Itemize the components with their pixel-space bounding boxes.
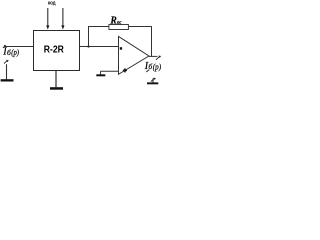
wire left input — [5, 46, 34, 48]
ground (below R-2R block) — [50, 87, 63, 90]
wire output — [149, 55, 158, 57]
ground (left) — [1, 79, 14, 81]
wire feedback top right segment — [128, 26, 152, 28]
op-amp U1 — [119, 36, 149, 74]
ground (op-amp + input) — [96, 74, 105, 76]
svg-text:Iб(р): Iб(р) — [2, 47, 19, 58]
R-2R ladder network block — [34, 31, 80, 71]
svg-text:Iб(р): Iб(р) — [144, 61, 162, 72]
wire feedback riser right — [151, 27, 153, 57]
ground (output) — [147, 82, 158, 84]
current arrow at output — [156, 56, 161, 60]
current arrow on output ground stub — [151, 78, 156, 82]
minus sign (inverting input) — [120, 47, 122, 50]
wire block bottom to ground — [55, 71, 57, 88]
ground riser (op-amp + input) — [100, 71, 102, 74]
code input arrow 1 — [46, 8, 49, 30]
wire block output to op-amp inverting input — [80, 46, 119, 48]
wire feedback riser left — [88, 27, 90, 47]
wire left ground stub — [6, 64, 8, 79]
resistor Roc — [109, 25, 128, 30]
wire output ground stub — [152, 78, 154, 82]
plus sign (non-inverting input) — [123, 68, 127, 72]
svg-text:R-2R: R-2R — [44, 45, 65, 56]
current arrow at left input — [3, 45, 6, 48]
svg-text:код: код — [48, 1, 56, 7]
wire non-inverting input to ground — [101, 70, 119, 72]
wire feedback top left segment — [88, 26, 109, 28]
current arrow on left ground stub — [4, 60, 9, 64]
code input arrow 2 — [61, 8, 64, 30]
node A junction dot — [87, 45, 89, 47]
serif tick under output label — [146, 70, 149, 72]
